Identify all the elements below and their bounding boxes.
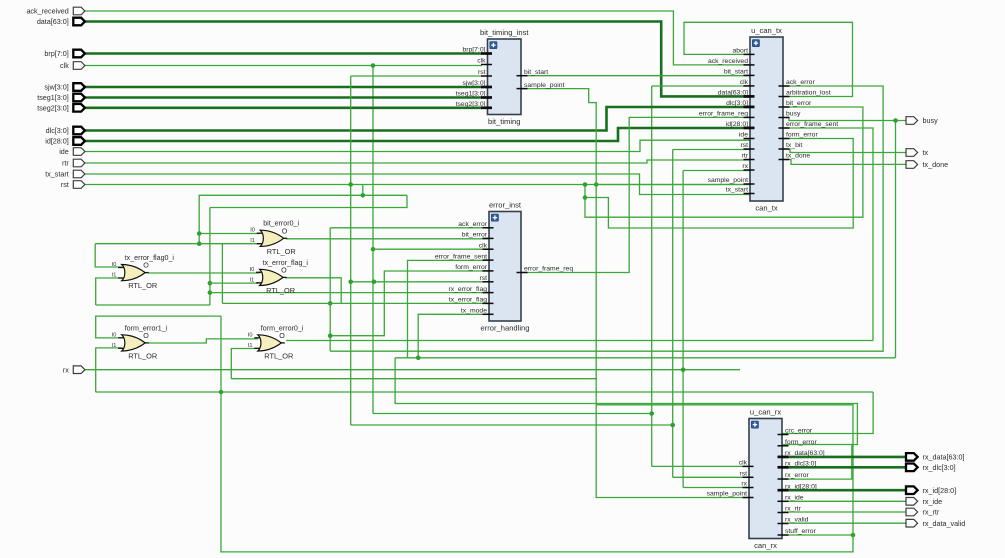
svg-text:RTL_OR: RTL_OR xyxy=(267,247,296,256)
svg-text:rst: rst xyxy=(479,275,487,282)
svg-text:error_frame_sent: error_frame_sent xyxy=(786,121,838,128)
svg-text:tx_bit: tx_bit xyxy=(786,142,802,149)
wire net rx_ide to output port xyxy=(782,500,906,502)
svg-text:clk: clk xyxy=(477,58,486,65)
svg-text:form_error: form_error xyxy=(786,132,818,139)
junction rst to error_handling.rst xyxy=(348,280,353,285)
input port brp[7:0] xyxy=(73,50,85,58)
wire net clk: port to bit_timing.clk with branches to can_tx, error_handling, can_rx xyxy=(84,65,482,67)
or-gate tx_error_flag0_i (RTL_OR) xyxy=(112,254,175,290)
wire bottom loop from right column to form gate column xyxy=(221,316,853,552)
wire net rtr to can_tx.rtr xyxy=(84,160,750,163)
wire form_error0_i output to right side xyxy=(286,340,873,342)
svg-text:tseg2[3:0]: tseg2[3:0] xyxy=(37,103,69,112)
svg-text:clk: clk xyxy=(60,61,69,70)
svg-text:rtr: rtr xyxy=(62,159,69,168)
svg-text:brp[7:0]: brp[7:0] xyxy=(44,49,68,58)
svg-text:I1: I1 xyxy=(250,277,255,283)
svg-text:tx_error_flag0_i: tx_error_flag0_i xyxy=(125,254,175,262)
wire net rx_rtr to output port xyxy=(782,511,906,513)
svg-text:arbitration_lost: arbitration_lost xyxy=(786,90,831,97)
output port rx_dlc[3:0] xyxy=(906,464,918,472)
output port rx_rtr xyxy=(906,508,918,516)
wire net busy: can_tx.busy to output port busy and down xyxy=(783,118,906,121)
junction gate feed column bottom xyxy=(197,241,202,246)
input port tx_start xyxy=(73,170,85,178)
svg-text:O: O xyxy=(143,332,149,340)
output port rx_data[63:0] xyxy=(906,453,918,461)
wire tx_error_flag0_i input I1 net xyxy=(96,278,122,305)
svg-text:I0: I0 xyxy=(248,332,253,338)
svg-text:error_frame_sent: error_frame_sent xyxy=(435,253,487,260)
svg-text:tseg1[3:0]: tseg1[3:0] xyxy=(37,93,69,102)
junction rx_error_flag feed on x=210 column xyxy=(208,290,213,295)
svg-text:ack_received: ack_received xyxy=(708,58,748,65)
svg-text:sample_point: sample_point xyxy=(524,82,565,89)
wire net tx_start to can_tx.tx_start xyxy=(84,174,750,195)
svg-text:tseg1[3:0]: tseg1[3:0] xyxy=(456,91,486,98)
wire net rx_dlc[3:0] bus to output port xyxy=(782,466,906,469)
svg-text:bit_start: bit_start xyxy=(524,69,548,76)
svg-text:tx: tx xyxy=(923,148,929,157)
wire net dlc[3:0] bus to can_tx.dlc xyxy=(84,107,750,131)
wire form_error feed into error_handling.form_error xyxy=(330,271,489,336)
wire net rx_error_flag feed to error_handling from gate column xyxy=(209,208,211,306)
module error_inst (error_handling) xyxy=(435,200,573,332)
wire net sample_point: bit_timing.sample_point to can_tx and can_rx xyxy=(521,89,749,498)
wire form_error1_i output to form_error0_i I0 xyxy=(148,339,258,343)
wire net form_error from can_tx down to row 228 and x=608 column xyxy=(585,139,853,229)
junction stuff_error joins bottom loop xyxy=(851,533,856,538)
svg-text:data[63:0]: data[63:0] xyxy=(37,17,69,26)
wire net crc_error return to form row xyxy=(782,392,873,434)
junction gate column at tx_error_flag_i I1 xyxy=(208,281,213,286)
wire net abort loop: can_tx.arbitration_lost feeds can_tx.abort xyxy=(684,22,853,96)
svg-text:rx: rx xyxy=(741,481,747,488)
svg-text:rx_ide: rx_ide xyxy=(785,495,804,502)
svg-text:data[63:0]: data[63:0] xyxy=(718,90,748,97)
svg-text:rtr: rtr xyxy=(742,153,749,160)
junction form feed on x=330 column xyxy=(328,333,333,338)
junction rst column to can_rx xyxy=(670,423,675,428)
svg-text:O: O xyxy=(282,227,288,235)
input port id[28:0] xyxy=(73,137,85,145)
junction clk to error_handling.clk xyxy=(371,247,376,252)
svg-text:busy: busy xyxy=(923,116,939,125)
svg-text:error_frame_req: error_frame_req xyxy=(699,111,748,118)
svg-text:dlc[3:0]: dlc[3:0] xyxy=(726,100,748,107)
wire net rx feed up to can_tx.rx from rx column xyxy=(683,170,750,172)
svg-text:rx_data_valid: rx_data_valid xyxy=(923,519,966,528)
svg-text:bit_start: bit_start xyxy=(724,69,748,76)
output port tx_done xyxy=(906,161,918,169)
junction clk column xyxy=(649,411,654,416)
svg-text:u_can_tx: u_can_tx xyxy=(751,26,782,35)
svg-text:error_frame_req: error_frame_req xyxy=(524,266,573,273)
svg-text:abort: abort xyxy=(733,48,749,55)
wire net bit_start: bit_timing.bit_start to can_tx.bit_start xyxy=(527,75,750,77)
svg-text:sjw[3:0]: sjw[3:0] xyxy=(44,83,68,92)
svg-text:rst: rst xyxy=(478,69,486,76)
svg-text:dlc[3:0]: dlc[3:0] xyxy=(46,126,69,135)
svg-text:ide: ide xyxy=(59,147,69,156)
junction on clk column at rst row xyxy=(372,280,377,285)
svg-text:error_handling: error_handling xyxy=(481,324,530,333)
wire vertical x=222 from bit_error0_i I1 row down to tx_error_flag row xyxy=(221,244,223,304)
input port sjw[3:0] xyxy=(73,83,85,91)
svg-text:tx_error_flag: tx_error_flag xyxy=(449,297,487,304)
svg-text:rx_error: rx_error xyxy=(785,472,810,479)
wire short vertical x=407 into row 207 xyxy=(210,195,407,207)
svg-text:error_inst: error_inst xyxy=(489,200,522,209)
svg-text:ide: ide xyxy=(739,132,748,139)
wire net ide to can_tx.ide xyxy=(84,140,750,151)
or-gate form_error0_i (RTL_OR) xyxy=(248,324,304,360)
svg-text:rx_dlc[3:0]: rx_dlc[3:0] xyxy=(923,463,956,472)
svg-text:RTL_OR: RTL_OR xyxy=(128,352,157,361)
junction on sample_point column at rst row xyxy=(594,182,599,187)
wire connector row 305 from x=96 to x=210 column xyxy=(96,304,210,306)
junction on x=330 column at tx_error_flag row xyxy=(328,301,333,306)
svg-text:ack_error: ack_error xyxy=(786,79,815,86)
svg-text:clk: clk xyxy=(739,460,748,467)
svg-text:busy: busy xyxy=(786,111,801,118)
junction rst jog tee xyxy=(361,193,366,198)
svg-text:I1: I1 xyxy=(248,343,253,349)
svg-text:can_rx: can_rx xyxy=(754,541,777,550)
svg-text:tx_done: tx_done xyxy=(923,160,949,169)
svg-text:crc_error: crc_error xyxy=(785,428,813,435)
wire tx_error_flag0_i input I0 net xyxy=(95,244,122,267)
svg-text:ack_error: ack_error xyxy=(458,221,487,228)
svg-text:rx_valid: rx_valid xyxy=(785,517,809,524)
wire net rx_id[28:0] bus to output port xyxy=(782,489,906,492)
or-gate tx_error_flag_i (RTL_OR) xyxy=(250,259,309,295)
wire net rx: input port to can_rx.rx xyxy=(84,369,740,371)
svg-text:rst: rst xyxy=(739,471,747,478)
input port rst xyxy=(73,181,85,189)
junction rx branch down xyxy=(681,367,686,372)
svg-text:bit_error: bit_error xyxy=(786,100,812,107)
svg-text:rst: rst xyxy=(61,180,69,189)
svg-text:RTL_OR: RTL_OR xyxy=(266,286,295,295)
svg-text:rx_data[63:0]: rx_data[63:0] xyxy=(785,450,825,457)
wire rst jog feeding gate input column xyxy=(199,185,363,244)
wire net tseg1[3:0] bus to bit_timing.tseg1 xyxy=(84,96,482,99)
input port ide xyxy=(73,148,85,156)
svg-text:u_can_rx: u_can_rx xyxy=(750,407,781,416)
svg-text:I1: I1 xyxy=(250,238,255,244)
wire form_error0_i I1 feed from below xyxy=(231,349,256,379)
wire net tx_error_flag row into error_handling.tx_error_flag xyxy=(222,302,489,304)
svg-text:brp[7:0]: brp[7:0] xyxy=(462,47,485,54)
output port tx xyxy=(906,149,918,157)
svg-text:rx_id[28:0]: rx_id[28:0] xyxy=(923,486,957,495)
wire net sjw[3:0] bus to bit_timing.sjw xyxy=(84,86,482,89)
svg-text:tseg2[3:0]: tseg2[3:0] xyxy=(456,101,486,108)
svg-text:id[28:0]: id[28:0] xyxy=(45,137,69,146)
wire net error_frame_req: error_handling output to can_tx.error_frame_req xyxy=(521,117,750,272)
svg-text:sjw[3:0]: sjw[3:0] xyxy=(462,80,485,87)
output port rx_ide xyxy=(906,498,918,506)
svg-text:RTL_OR: RTL_OR xyxy=(264,352,293,361)
svg-text:I1: I1 xyxy=(112,343,117,349)
svg-text:RTL_OR: RTL_OR xyxy=(128,281,157,290)
input port ack_received xyxy=(73,7,85,15)
svg-text:O: O xyxy=(279,332,285,340)
svg-text:bit_timing_inst: bit_timing_inst xyxy=(480,28,529,37)
junction bit_error return on rst row xyxy=(583,182,588,187)
svg-text:I0: I0 xyxy=(112,262,117,268)
wire tx_error_flag0_i output to tx_error_flag_i I0 xyxy=(148,272,260,274)
svg-text:I0: I0 xyxy=(250,267,255,273)
wire form_error1_i I1 feed xyxy=(96,348,122,392)
wire net bit_error: can_tx.bit_error return via row 217 xyxy=(585,107,863,217)
junction form loop at bottom column xyxy=(219,390,224,395)
svg-text:rx_error_flag: rx_error_flag xyxy=(448,286,487,293)
wire net rx_data[63:0] bus to output port xyxy=(782,456,906,459)
svg-text:rx_data[63:0]: rx_data[63:0] xyxy=(923,453,965,462)
svg-text:rx: rx xyxy=(742,163,748,170)
wire net rx_error return xyxy=(782,445,852,480)
wire net tseg2[3:0] bus to bit_timing.tseg2 xyxy=(84,107,482,110)
wire net id[28:0] bus to can_tx.id xyxy=(84,128,750,141)
wire bit_error0_i I1 row xyxy=(95,243,260,245)
module u_can_rx (can_rx) xyxy=(707,407,825,550)
junction rst at port row xyxy=(348,182,353,187)
junction tx_mode column xyxy=(416,356,421,361)
svg-text:I0: I0 xyxy=(112,332,117,338)
or-gate bit_error0_i (RTL_OR) xyxy=(250,220,299,256)
wire bit_error0_i output to error_handling.bit_error xyxy=(286,238,489,240)
svg-text:tx_start: tx_start xyxy=(726,187,748,194)
module bit_timing_inst (bit_timing) xyxy=(456,28,565,126)
svg-text:tx_start: tx_start xyxy=(45,170,69,179)
svg-text:I1: I1 xyxy=(112,273,117,279)
junction clk at port row xyxy=(371,63,376,68)
wire net ack_error feed into error_handling.ack_error xyxy=(329,228,331,351)
svg-text:rx_rtr: rx_rtr xyxy=(785,506,802,513)
svg-text:clk: clk xyxy=(740,79,749,86)
input port dlc[3:0] xyxy=(73,127,85,135)
svg-text:tx_mode: tx_mode xyxy=(461,308,487,315)
svg-text:rx_id[28:0]: rx_id[28:0] xyxy=(785,483,817,490)
input port rx xyxy=(73,366,85,374)
wire row from x=231 column toward right xyxy=(231,378,596,380)
svg-text:rx_ide: rx_ide xyxy=(923,497,943,506)
svg-text:form_error: form_error xyxy=(455,264,487,271)
wire net tx_bit to output port tx xyxy=(783,149,906,153)
svg-text:clk: clk xyxy=(479,242,488,249)
input port tseg1[3:0] xyxy=(73,94,85,102)
svg-text:O: O xyxy=(143,262,149,270)
input port clk xyxy=(73,62,85,70)
svg-text:I0: I0 xyxy=(250,228,255,234)
svg-text:ack_received: ack_received xyxy=(26,7,68,16)
svg-text:rst: rst xyxy=(740,142,748,149)
wire net tx_mode feed from busy column xyxy=(418,314,489,358)
wire net ack_received: input to can_tx.ack_received xyxy=(84,11,750,65)
svg-text:rx: rx xyxy=(63,365,69,374)
output port rx_data_valid xyxy=(906,519,918,527)
or-gate form_error1_i (RTL_OR) xyxy=(112,324,168,360)
svg-text:form_error: form_error xyxy=(785,439,817,446)
svg-text:rx_rtr: rx_rtr xyxy=(923,508,940,517)
input port data[63:0] xyxy=(73,18,85,26)
junction gate feed column at bit_error0_i I0 xyxy=(197,231,202,236)
wire net stuff_error to bottom loop xyxy=(782,534,853,536)
svg-text:id[28:0]: id[28:0] xyxy=(726,121,748,128)
output port rx_id[28:0] xyxy=(906,486,918,494)
wire net data[63:0] bus: input to can_tx.data xyxy=(84,22,750,97)
wire net ack_error: can_tx.ack_error down right side xyxy=(330,86,883,351)
wire to bit_error0_i I0 xyxy=(199,233,260,235)
svg-text:tx_done: tx_done xyxy=(786,153,810,160)
svg-text:bit_timing: bit_timing xyxy=(488,117,521,126)
input port tseg2[3:0] xyxy=(73,104,85,112)
svg-text:bit_error: bit_error xyxy=(462,232,488,239)
wire form_error1_i I0 feed from right xyxy=(96,316,221,338)
wire tx_error_flag_i output jog into tx_error_flag row xyxy=(285,278,341,304)
junction busy column xyxy=(893,118,898,123)
wire net rst: port row with branches to bit_timing, can_tx, error_handling, can_rx xyxy=(84,184,750,186)
wire net tx_done to output port tx_done xyxy=(783,160,906,165)
svg-text:stuff_error: stuff_error xyxy=(785,528,817,535)
wire net brp[7:0] bus to bit_timing.brp xyxy=(84,52,482,55)
svg-text:sample_point: sample_point xyxy=(708,177,749,184)
input port rtr xyxy=(73,159,85,167)
module u_can_tx (can_tx) xyxy=(699,26,838,213)
wire net rx_valid to output port rx_data_valid xyxy=(782,522,906,524)
wire form loop row across to right side xyxy=(96,391,873,393)
wire error_frame_sent feed into error_handling from row 357 xyxy=(408,260,490,357)
output port busy xyxy=(906,117,918,125)
wire net error_frame_sent: can_tx.error_frame_sent to error_handling xyxy=(783,128,873,341)
svg-text:rx_dlc[3:0]: rx_dlc[3:0] xyxy=(785,461,816,468)
svg-text:sample_point: sample_point xyxy=(707,491,748,498)
wire net form_error return from can_rx to form gates xyxy=(395,358,857,445)
wire row 195 continuing right to x=407 step xyxy=(363,194,407,196)
wire to tx_error_flag_i I1 xyxy=(210,282,260,284)
junction on x=585 column at row 197 xyxy=(583,195,588,200)
svg-text:can_tx: can_tx xyxy=(755,204,778,213)
svg-text:O: O xyxy=(281,267,287,275)
